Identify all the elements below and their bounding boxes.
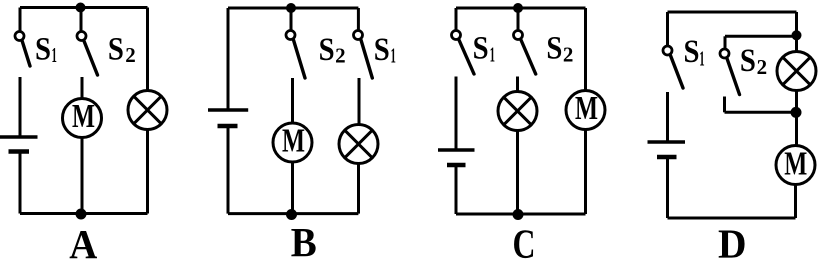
svg-text:S: S bbox=[35, 32, 51, 68]
svg-text:D: D bbox=[718, 221, 747, 259]
svg-text:1: 1 bbox=[699, 47, 704, 71]
svg-text:M: M bbox=[575, 90, 598, 127]
svg-text:1: 1 bbox=[391, 44, 396, 68]
svg-text:M: M bbox=[784, 146, 807, 183]
svg-text:2: 2 bbox=[563, 43, 574, 67]
svg-text:C: C bbox=[513, 221, 536, 259]
svg-text:M: M bbox=[72, 98, 95, 135]
svg-text:1: 1 bbox=[490, 43, 495, 67]
svg-text:S: S bbox=[684, 34, 700, 70]
svg-text:B: B bbox=[291, 219, 317, 259]
svg-text:S: S bbox=[108, 32, 124, 68]
svg-text:1: 1 bbox=[52, 43, 57, 67]
svg-text:S: S bbox=[374, 32, 390, 68]
svg-text:2: 2 bbox=[125, 43, 136, 67]
svg-text:S: S bbox=[319, 32, 335, 68]
svg-text:S: S bbox=[740, 43, 756, 79]
svg-text:M: M bbox=[282, 123, 305, 160]
svg-text:S: S bbox=[473, 31, 489, 67]
svg-text:S: S bbox=[546, 31, 562, 67]
svg-text:2: 2 bbox=[335, 44, 346, 68]
svg-text:2: 2 bbox=[757, 55, 768, 79]
svg-text:A: A bbox=[69, 221, 97, 259]
